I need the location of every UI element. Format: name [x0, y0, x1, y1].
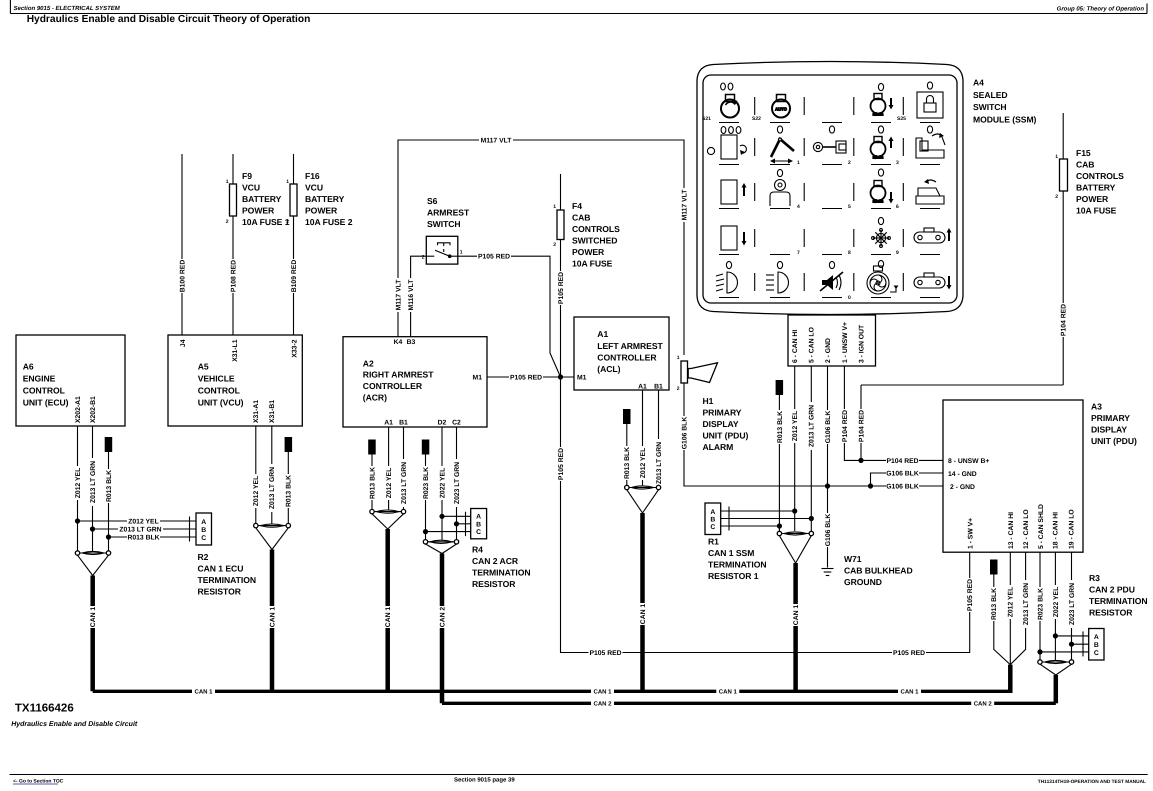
svg-text:R023 BLK: R023 BLK — [423, 467, 430, 499]
ACR CAN2 harness bundle — [426, 541, 457, 543]
VCU funnel — [256, 528, 272, 550]
svg-text:C: C — [201, 535, 206, 542]
svg-text:AUTO: AUTO — [775, 107, 788, 112]
svg-text:ARMREST: ARMREST — [427, 208, 470, 218]
svg-text:1: 1 — [226, 179, 229, 185]
svg-text:B: B — [476, 521, 481, 528]
svg-text:CONTROLS: CONTROLS — [1076, 171, 1124, 181]
VCU wire R013 BLK — [287, 452, 289, 524]
svg-text:P105 RED: P105 RED — [478, 254, 510, 261]
PDU wire Z023 LT GRN — [1071, 552, 1073, 660]
svg-text:MODULE (SSM): MODULE (SSM) — [973, 114, 1037, 124]
svg-text:CAN 1: CAN 1 — [269, 607, 276, 628]
svg-text:CAN 1: CAN 1 — [385, 607, 392, 628]
svg-text:SWITCH: SWITCH — [427, 219, 461, 229]
svg-text:UNIT (PDU): UNIT (PDU) — [703, 431, 749, 441]
R1 row B — [721, 518, 812, 520]
svg-text:LEFT ARMREST: LEFT ARMREST — [597, 341, 663, 351]
R1 row C — [721, 525, 780, 527]
svg-text:M117 VLT: M117 VLT — [395, 279, 402, 311]
SSM rocker bars under icons — [719, 123, 940, 298]
svg-text:J4: J4 — [180, 339, 187, 347]
svg-text:F16: F16 — [305, 171, 320, 181]
svg-text:Z012 YEL: Z012 YEL — [75, 468, 82, 498]
fuse F15 — [1060, 159, 1068, 191]
connector ticks R4 — [465, 512, 467, 521]
svg-text:Z013 LT GRN: Z013 LT GRN — [656, 442, 663, 484]
svg-text:R013 BLK: R013 BLK — [777, 411, 784, 443]
svg-text:R013 BLK: R013 BLK — [286, 475, 293, 507]
svg-text:2 - GND: 2 - GND — [825, 338, 832, 363]
connector ticks R1 — [728, 507, 730, 516]
svg-text:Z013 LT GRN: Z013 LT GRN — [119, 526, 161, 533]
R3 row B — [1072, 643, 1089, 645]
icon headlight low — [716, 272, 738, 293]
R4 row B — [457, 523, 471, 525]
svg-text:R013 BLK: R013 BLK — [624, 447, 631, 479]
svg-text:UNIT (VCU): UNIT (VCU) — [198, 398, 244, 408]
svg-text:G106 BLK: G106 BLK — [886, 483, 919, 490]
svg-text:R013 BLK: R013 BLK — [106, 470, 113, 502]
svg-text:F15: F15 — [1076, 148, 1091, 158]
icon hydraulics lock — [917, 92, 943, 118]
wire B100 RED — [181, 154, 183, 335]
fuse F4 — [557, 210, 564, 240]
header rule — [10, 13, 1147, 15]
PDU A3 — [943, 400, 1083, 552]
svg-text:CAN 2 PDU: CAN 2 PDU — [1089, 585, 1135, 595]
ACL wire Z013 LT GRN — [658, 390, 660, 485]
fuse F9 — [230, 184, 237, 216]
svg-text:Hydraulics Enable and Disable: Hydraulics Enable and Disable Circuit Th… — [27, 14, 311, 25]
svg-text:POWER: POWER — [572, 247, 605, 257]
svg-text:POWER: POWER — [1076, 194, 1109, 204]
svg-text:H1: H1 — [703, 396, 714, 406]
svg-text:1: 1 — [677, 355, 680, 361]
resistor R4 — [471, 509, 487, 539]
ACR wire Z013 LT GRN — [403, 427, 405, 510]
svg-text:VEHICLE: VEHICLE — [198, 374, 235, 384]
svg-text:Section 9015 page 39: Section 9015 page 39 — [454, 777, 515, 784]
SSM harness bundle — [779, 533, 811, 535]
svg-text:2: 2 — [848, 160, 851, 166]
CAN 1 bus labels — [192, 687, 215, 696]
svg-text:Z022 YEL: Z022 YEL — [439, 468, 446, 498]
wire G106 BLK SSM to ground — [827, 366, 829, 568]
footer rule — [10, 774, 1148, 776]
ECU A6 — [16, 335, 125, 426]
SSM wire R013 BLK — [778, 395, 780, 531]
BUSES — [93, 687, 1056, 708]
svg-text:n/min: n/min — [873, 155, 884, 160]
fuse F16 wire — [293, 154, 295, 184]
R4 row C — [426, 531, 471, 533]
svg-text:DISPLAY: DISPLAY — [703, 419, 739, 429]
node dots R4 — [439, 514, 444, 519]
SSM wire Z012 YEL — [794, 366, 796, 531]
PDU CAN2 funnel — [1040, 664, 1056, 675]
svg-text:Z012 YEL: Z012 YEL — [1008, 587, 1015, 617]
svg-text:Z012 YEL: Z012 YEL — [128, 518, 158, 525]
svg-text:ALARM: ALARM — [703, 442, 734, 452]
icon horn mute — [820, 272, 843, 291]
svg-text:M117 VLT: M117 VLT — [481, 137, 513, 144]
svg-text:1: 1 — [460, 250, 463, 256]
svg-text:K4: K4 — [394, 339, 403, 346]
svg-text:Z023 LT GRN: Z023 LT GRN — [454, 462, 461, 504]
alarm H1 connector — [681, 361, 688, 383]
svg-text:GROUND: GROUND — [844, 577, 882, 587]
svg-text:7: 7 — [797, 250, 800, 256]
svg-text:Z012 YEL: Z012 YEL — [386, 468, 393, 498]
ECU wire Z012 YEL — [77, 426, 79, 551]
svg-text:TERMINATION: TERMINATION — [198, 575, 257, 585]
svg-text:P105 RED: P105 RED — [558, 272, 565, 304]
svg-text:CONTROLLER: CONTROLLER — [597, 353, 657, 363]
ECU harness bundle — [78, 552, 109, 554]
svg-text:CAN 2: CAN 2 — [593, 701, 612, 708]
icon cylinder switch 2 — [813, 141, 846, 153]
CAN 2 bus labels — [591, 699, 614, 708]
svg-text:S21: S21 — [702, 116, 711, 122]
svg-text:A3: A3 — [1091, 402, 1102, 412]
svg-text:B: B — [201, 527, 206, 534]
wire P104 RED vertical to pin 8 — [860, 385, 862, 460]
svg-text:CONTROL: CONTROL — [23, 386, 65, 396]
wire P104 RED into pin 8 — [861, 459, 943, 461]
svg-text:10A FUSE: 10A FUSE — [572, 259, 613, 269]
PDU wire R013 BLK — [994, 575, 1011, 665]
icon boom arm switch 1 — [770, 138, 794, 164]
svg-text:S25: S25 — [897, 116, 906, 122]
ACL wire Z012 YEL — [642, 390, 644, 485]
header right bracket — [1146, 4, 1148, 14]
wire G106 BLK from H1 — [684, 383, 943, 486]
splice on R013 BLK SSM — [776, 380, 784, 395]
svg-text:14 - GND: 14 - GND — [948, 471, 977, 478]
svg-text:A: A — [201, 519, 206, 526]
svg-text:B100 RED: B100 RED — [179, 260, 186, 293]
svg-text:R3: R3 — [1089, 573, 1100, 583]
splice on R023 BLK ACR — [422, 440, 430, 455]
VCU harness bundle — [256, 525, 288, 527]
resistor R3 — [1089, 629, 1104, 661]
svg-text:13 - CAN HI: 13 - CAN HI — [1008, 512, 1015, 549]
icon rpm bulb up 3 — [871, 137, 894, 160]
PAGE HEADER — [10, 0, 1147, 25]
icon seat forward — [916, 133, 945, 158]
svg-text:Z012 YEL: Z012 YEL — [253, 476, 260, 506]
svg-text:S6: S6 — [427, 196, 438, 206]
ACR CAN1 funnel — [372, 514, 388, 529]
R3 row A — [1055, 635, 1088, 637]
wire CAN 1 drop SSM — [793, 563, 798, 691]
svg-text:C2: C2 — [452, 420, 461, 427]
wire M117 VLT net — [398, 140, 684, 355]
svg-text:P104 RED: P104 RED — [1061, 304, 1068, 336]
ACR wire Z023 LT GRN — [456, 427, 458, 540]
svg-text:RESISTOR: RESISTOR — [1089, 608, 1133, 618]
svg-text:P108 RED: P108 RED — [230, 260, 237, 292]
svg-text:A: A — [1094, 634, 1099, 641]
SSM MODULE — [697, 62, 1037, 367]
svg-text:1: 1 — [286, 179, 289, 185]
SSM small 0 markers — [721, 82, 933, 269]
svg-text:8: 8 — [848, 250, 851, 256]
R4 row A — [442, 515, 471, 517]
icon rpm bulb down 6 — [871, 181, 894, 204]
svg-text:W71: W71 — [844, 554, 862, 564]
node M1 junction — [558, 374, 563, 379]
svg-text:5 - CAN SHLD: 5 - CAN SHLD — [1038, 504, 1045, 549]
icon creep container — [707, 135, 746, 159]
svg-text:Group 05: Theory of Operation: Group 05: Theory of Operation — [1057, 6, 1145, 13]
svg-text:6: 6 — [896, 204, 899, 210]
svg-text:Z012 YEL: Z012 YEL — [792, 411, 799, 441]
svg-text:SEALED: SEALED — [973, 90, 1008, 100]
svg-text:Z013 LT GRN: Z013 LT GRN — [401, 462, 408, 504]
SSM wire Z013 LT GRN — [810, 366, 812, 531]
svg-text:CAN 1: CAN 1 — [593, 689, 612, 696]
svg-text:2: 2 — [226, 219, 229, 225]
svg-text:G106 BLK: G106 BLK — [825, 411, 832, 444]
ECU wire R013 BLK — [108, 452, 110, 551]
icon headlight high — [766, 272, 789, 293]
svg-text:2: 2 — [1055, 194, 1058, 200]
PDU wire Z013 LT GRN — [1010, 552, 1025, 664]
svg-text:R023 BLK: R023 BLK — [1037, 588, 1044, 620]
svg-text:CAB BULKHEAD: CAB BULKHEAD — [844, 566, 913, 576]
svg-text:P105 RED: P105 RED — [510, 374, 542, 381]
wire CAN 1 drop VCU — [270, 550, 275, 692]
svg-text:P105 RED: P105 RED — [589, 650, 621, 657]
PDU wire R023 BLK — [1039, 552, 1041, 660]
svg-text:R013 BLK: R013 BLK — [369, 467, 376, 499]
svg-text:X33-2: X33-2 — [291, 339, 298, 357]
svg-text:P105 RED: P105 RED — [893, 650, 925, 657]
svg-text:BATTERY: BATTERY — [1076, 183, 1116, 193]
VCU wire Z013 LT GRN — [271, 426, 273, 524]
svg-text:C: C — [476, 529, 481, 536]
svg-text:2: 2 — [422, 255, 425, 261]
svg-text:B109 RED: B109 RED — [291, 260, 298, 293]
ACR wire Z012 YEL — [388, 427, 390, 510]
icon auto mode S22 — [772, 95, 790, 118]
SSM A4 outer case — [697, 62, 963, 315]
splice on R013 BLK VCU — [285, 437, 293, 452]
svg-text:5: 5 — [848, 204, 851, 210]
svg-text:POWER: POWER — [242, 206, 275, 216]
R1 row A — [721, 510, 795, 512]
svg-text:P104 RED: P104 RED — [858, 410, 865, 442]
splice on R013 BLK ACR — [368, 440, 376, 455]
svg-text:RESISTOR: RESISTOR — [472, 579, 516, 589]
svg-text:3: 3 — [896, 160, 899, 166]
svg-text:CAN 1: CAN 1 — [194, 689, 213, 696]
ACL funnel — [627, 490, 643, 513]
svg-text:Z023 LT GRN: Z023 LT GRN — [1069, 583, 1076, 625]
svg-text:Section 9015 - ELECTRICAL SYST: Section 9015 - ELECTRICAL SYSTEM — [14, 5, 121, 12]
svg-text:B: B — [710, 517, 715, 524]
svg-text:X202-A1: X202-A1 — [75, 396, 82, 423]
connector ticks R3 — [1082, 631, 1084, 640]
svg-text:CONTROLLER: CONTROLLER — [363, 381, 423, 391]
SSM funnel — [779, 536, 795, 563]
ACL harness bundle — [627, 487, 659, 489]
svg-text:8 - UNSW B+: 8 - UNSW B+ — [948, 458, 989, 465]
svg-text:TERMINATION: TERMINATION — [1089, 596, 1148, 606]
icon container down — [721, 226, 747, 250]
svg-text:19 - CAN LO: 19 - CAN LO — [1068, 509, 1075, 549]
svg-text:G106 BLK: G106 BLK — [681, 417, 688, 450]
svg-text:TX1166426: TX1166426 — [15, 703, 74, 715]
svg-text:A1: A1 — [597, 329, 608, 339]
svg-text:P104 RED: P104 RED — [886, 458, 918, 465]
wire CAN 2 bus — [442, 702, 1056, 705]
wire CAN 2 drop PDU — [1054, 675, 1059, 703]
VCU wire Z012 YEL — [255, 426, 257, 524]
svg-text:RESISTOR 1: RESISTOR 1 — [708, 571, 759, 581]
wire CAN 1 drop ACL — [640, 513, 645, 691]
icon conveyor up — [914, 228, 952, 243]
svg-text:A: A — [710, 509, 715, 516]
icon beacon 4 — [770, 180, 790, 207]
svg-text:CAN 2: CAN 2 — [439, 607, 446, 628]
PDU wire Z022 YEL — [1054, 552, 1056, 660]
svg-text:P105 RED: P105 RED — [967, 579, 974, 611]
svg-text:POWER: POWER — [305, 206, 338, 216]
svg-text:UNIT (PDU): UNIT (PDU) — [1091, 436, 1137, 446]
svg-text:TERMINATION: TERMINATION — [472, 568, 531, 578]
ground W71 — [822, 568, 834, 570]
svg-text:C: C — [1094, 650, 1099, 657]
svg-text:CONTROLS: CONTROLS — [572, 224, 620, 234]
svg-text:X31-L1: X31-L1 — [232, 339, 239, 362]
svg-text:2: 2 — [553, 242, 556, 248]
svg-text:RIGHT ARMREST: RIGHT ARMREST — [363, 370, 434, 380]
svg-text:M1: M1 — [577, 375, 587, 382]
resistor R1 — [705, 503, 721, 535]
splice on R013 BLK ACL — [623, 409, 631, 424]
svg-text:VCU: VCU — [242, 183, 260, 193]
svg-text:Z022 YEL: Z022 YEL — [1053, 587, 1060, 617]
svg-text:SWITCH: SWITCH — [973, 102, 1007, 112]
svg-text:CAN 2: CAN 2 — [974, 701, 993, 708]
svg-text:CAN 1: CAN 1 — [900, 689, 919, 696]
svg-text:4: 4 — [797, 204, 800, 210]
svg-text:G106 BLK: G106 BLK — [886, 470, 919, 477]
CONTROL UNIT BOXES — [16, 196, 1137, 552]
svg-text:0: 0 — [848, 295, 851, 301]
svg-text:BATTERY: BATTERY — [242, 194, 282, 204]
svg-text:M1: M1 — [473, 375, 483, 382]
R3 row C — [1040, 651, 1089, 653]
fuse F9 wire — [232, 154, 234, 184]
svg-text:CAN 1: CAN 1 — [719, 689, 738, 696]
ECU wire Z013 LT GRN — [92, 426, 94, 551]
ACR A2 — [343, 337, 487, 427]
node dots G106 — [825, 483, 830, 488]
node dots R2 — [75, 518, 80, 523]
svg-text:R013 BLK: R013 BLK — [991, 588, 998, 620]
svg-text:Z013 LT GRN: Z013 LT GRN — [1023, 583, 1030, 625]
svg-text:TH11314TH19-OPERATION AND TEST: TH11314TH19-OPERATION AND TEST MANUAL — [1038, 779, 1146, 785]
svg-text:P104 RED: P104 RED — [842, 410, 849, 442]
svg-text:10A FUSE 1: 10A FUSE 1 — [242, 217, 290, 227]
PDU wire Z012 YEL — [1009, 552, 1011, 664]
node P104 junction — [858, 458, 863, 463]
node dots R3 — [1053, 633, 1058, 638]
wire P105 RED below F4 — [560, 240, 562, 378]
splice on R013 BLK ECU — [105, 437, 113, 452]
svg-text:n/min: n/min — [873, 199, 884, 204]
svg-text:n/min: n/min — [873, 112, 884, 117]
fuse F4 wire top — [560, 174, 562, 210]
S6 actuator bracket — [438, 243, 451, 246]
svg-text:(ACL): (ACL) — [597, 364, 620, 374]
svg-text:R1: R1 — [708, 537, 719, 547]
wire B109 RED — [290, 259, 297, 293]
svg-text:CAN 1: CAN 1 — [793, 605, 800, 626]
svg-text:CAN 1 SSM: CAN 1 SSM — [708, 548, 754, 558]
svg-text:CAN 1: CAN 1 — [640, 604, 647, 625]
wire CAN 1 drop ECU — [90, 576, 95, 692]
svg-text:B3: B3 — [407, 339, 416, 346]
svg-text:Z012 YEL: Z012 YEL — [640, 448, 647, 478]
svg-text:PRIMARY: PRIMARY — [703, 408, 742, 418]
svg-text:A6: A6 — [23, 362, 34, 372]
svg-text:PRIMARY: PRIMARY — [1091, 413, 1130, 423]
svg-text:CAN 1 ECU: CAN 1 ECU — [198, 564, 244, 574]
ECU funnel — [78, 555, 93, 575]
svg-text:6 - CAN HI: 6 - CAN HI — [792, 330, 799, 363]
SSM inner panel — [703, 75, 957, 303]
svg-text:Hydraulics Enable and Disable: Hydraulics Enable and Disable Circuit — [11, 720, 138, 728]
wire M116 VLT — [411, 256, 427, 337]
svg-text:CONTROL: CONTROL — [198, 386, 240, 396]
ACR wire Z022 YEL — [441, 427, 443, 540]
svg-text:10A FUSE 2: 10A FUSE 2 — [305, 217, 353, 227]
svg-text:UNIT (ECU): UNIT (ECU) — [23, 398, 69, 408]
svg-text:Z013 LT GRN: Z013 LT GRN — [809, 405, 816, 447]
svg-text:A: A — [476, 514, 481, 521]
wire P104 RED from pin 1 UNSW V+ — [844, 366, 861, 460]
svg-text:<- Go to Section TOC: <- Go to Section TOC — [13, 779, 64, 785]
svg-text:Z013 LT GRN: Z013 LT GRN — [90, 461, 97, 503]
svg-text:12 - CAN LO: 12 - CAN LO — [1023, 509, 1030, 549]
S6 contacts and blade — [426, 255, 434, 257]
svg-text:X31-B1: X31-B1 — [269, 400, 276, 423]
svg-text:BATTERY: BATTERY — [305, 194, 345, 204]
svg-text:1 - SW V+: 1 - SW V+ — [967, 518, 974, 549]
ACR wire R013 BLK — [371, 455, 373, 510]
icon snowflake 9 — [872, 229, 891, 248]
ACL A1 — [574, 317, 669, 390]
alarm H1 horn — [688, 363, 717, 383]
connector ticks R2 — [189, 517, 191, 526]
R2 row Z013 LT GRN — [93, 528, 197, 530]
svg-text:CAN 2 ACR: CAN 2 ACR — [472, 556, 519, 566]
icon engine speed dial S21 — [721, 95, 739, 118]
svg-text:1: 1 — [797, 160, 800, 166]
wire P104 RED from F15 — [1062, 191, 1064, 385]
svg-text:F9: F9 — [242, 171, 252, 181]
wire CAN 1 drop ACR — [385, 529, 390, 691]
svg-text:P105 RED: P105 RED — [558, 448, 565, 480]
R2 row R013 BLK — [109, 536, 197, 538]
svg-text:DISPLAY: DISPLAY — [1091, 425, 1127, 435]
svg-text:B1: B1 — [399, 420, 408, 427]
